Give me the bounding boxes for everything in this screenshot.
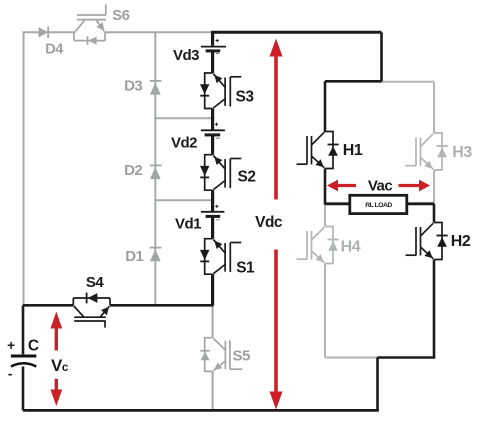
wire: gray rail from S6 to stack corner — [105, 31, 214, 33]
wire: black left vertical above capacitor — [22, 305, 25, 354]
wire: stack segment top rail to Vd3 — [211, 32, 214, 45]
wire: black left vertical below capacitor — [22, 367, 25, 411]
svg-text:D4: D4 — [45, 42, 63, 58]
wire: gray bottom horizontal of H-bridge — [325, 357, 378, 359]
wire: gray left leg below H4 — [324, 264, 326, 358]
svg-text:S6: S6 — [112, 7, 130, 24]
svg-text:Vdc: Vdc — [255, 214, 283, 231]
wire: black horizontal to left H-bridge leg — [325, 80, 382, 83]
wire: black right leg below H2 — [433, 260, 436, 358]
wire: gray S5 branch top — [212, 305, 214, 337]
battery Vd1 — [201, 205, 225, 220]
transistor S6 (horizontal, gray) — [74, 4, 106, 45]
svg-text:Vd1: Vd1 — [175, 216, 201, 233]
svg-text:Vc: Vc — [51, 356, 69, 375]
transistor S3 — [200, 73, 241, 109]
wire: stack segment Vd2 to S2 — [211, 135, 214, 155]
wire: gray left leg load row to H4 — [324, 204, 326, 227]
svg-text:H3: H3 — [452, 144, 472, 161]
svg-text:-: - — [8, 367, 12, 382]
diode D2 — [150, 165, 162, 179]
transistor H1 — [297, 132, 339, 169]
svg-text:RL LOAD: RL LOAD — [365, 202, 392, 209]
battery Vd3 — [201, 39, 226, 54]
transistor H2 — [406, 223, 448, 260]
svg-text:D1: D1 — [125, 248, 143, 265]
svg-text:C: C — [28, 338, 39, 355]
svg-text:S3: S3 — [236, 89, 255, 106]
arrow Vdc down — [270, 250, 283, 410]
wire: gray link D2/D1 junction to stack — [155, 199, 212, 201]
svg-text:S2: S2 — [238, 168, 256, 185]
wire: black left leg H1 to load row — [324, 169, 327, 205]
svg-text:S1: S1 — [236, 260, 255, 277]
svg-text:H2: H2 — [451, 233, 471, 250]
svg-text:Vd3: Vd3 — [173, 47, 199, 64]
wire: gray right leg upper (to H3) — [433, 82, 435, 133]
wire: stack segment Vd3 to S3 — [211, 51, 214, 73]
wire: black left leg down to H1 — [324, 81, 327, 132]
transistor H3 (gray) — [406, 133, 448, 170]
arrow Vc up — [50, 312, 62, 351]
capacitor C — [11, 356, 36, 367]
wire: gray right leg H3 to load row — [433, 170, 435, 204]
wire: S4 row right segment — [110, 304, 214, 307]
wire: gray top-right horizontal to H3 leg — [381, 81, 435, 83]
svg-text:S5: S5 — [233, 347, 251, 364]
svg-text:Vac: Vac — [368, 177, 393, 194]
wire: gray S5 branch bottom — [212, 371, 214, 410]
diode D3 — [150, 81, 162, 95]
svg-text:D3: D3 — [124, 77, 142, 94]
wire: black right leg load row to H2 — [433, 204, 436, 223]
arrow Vc down — [50, 379, 62, 406]
transistor S5 (gray) — [200, 338, 242, 372]
RL LOAD box — [350, 195, 407, 213]
svg-text:S4: S4 — [86, 274, 105, 291]
transistor H4 (gray) — [297, 227, 339, 264]
wire: gray link D3/D2 junction to stack — [155, 117, 212, 119]
wire: stack segment Vd1 to S1 — [211, 216, 214, 238]
wire: stack segment S3 to Vd2 (node) — [211, 109, 214, 130]
wire: black load row right segment — [406, 202, 434, 205]
transistor S2 — [200, 155, 241, 191]
diode D4 (gray, on top-left rail) — [39, 27, 49, 38]
wire: top-left gray horizontal rail — [24, 31, 76, 33]
arrow Vdc up — [270, 39, 283, 200]
wire: black bottom horizontal of H-bridge — [378, 356, 436, 359]
wire: left gray vertical — [23, 31, 25, 305]
svg-text:H1: H1 — [343, 142, 363, 159]
svg-text:D2: D2 — [124, 162, 142, 179]
wire: middle gray vertical (diode chain) — [154, 32, 156, 305]
transistor S1 — [200, 239, 241, 275]
wire: stack segment S1 to S4 row — [211, 274, 214, 305]
svg-text:H4: H4 — [341, 239, 361, 256]
battery Vd2 — [201, 123, 225, 139]
wire: S4 row left segment — [23, 304, 73, 307]
svg-text:+: + — [7, 338, 15, 353]
wire: black load row left segment — [325, 202, 350, 205]
svg-text:Vd2: Vd2 — [171, 134, 197, 151]
wire: black top rail — [211, 31, 382, 34]
transistor S4 (horizontal, black) — [73, 293, 110, 328]
wire: stack segment S2 to Vd1 (node) — [211, 190, 214, 211]
wire: black right drop from top rail — [380, 32, 383, 81]
wire: black bottom rail — [23, 409, 379, 412]
diode D1 — [150, 248, 162, 262]
arrow Vac left — [327, 180, 356, 192]
wire: black step down to bottom rail — [376, 358, 379, 411]
arrow Vac right — [399, 180, 431, 192]
